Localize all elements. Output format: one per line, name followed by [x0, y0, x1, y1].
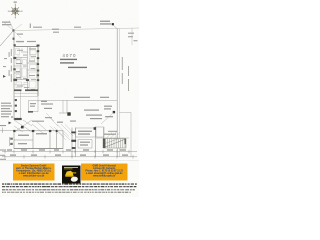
rotated dims along west wall — [3, 49, 12, 82]
ramp hatch X — [14, 120, 46, 134]
small dark tick near x=30 — [29, 24, 32, 29]
dimension chain 2 — [2, 155, 137, 158]
tiny room labels — [16, 48, 36, 90]
survey point C labels — [100, 21, 111, 25]
extra verticals and leaders mid area — [62, 100, 64, 113]
survey point D — [113, 111, 115, 113]
short right vertical top — [131, 28, 133, 45]
garage west approach — [0, 130, 14, 132]
interior walls — [14, 47, 38, 91]
numbers chain 1 — [7, 149, 126, 150]
boundary labels — [33, 27, 81, 33]
label above staircase — [104, 134, 116, 135]
svg-text:www.becker-sys.de: www.becker-sys.de — [23, 176, 45, 178]
staircase box — [103, 139, 126, 148]
leader lines to point A — [3, 22, 14, 31]
svg-text:4070: 4070 — [63, 53, 77, 58]
survey point C — [112, 23, 114, 25]
left orange box — [13, 164, 55, 181]
diagonal hatch center — [50, 124, 75, 140]
rotated street labels — [122, 57, 129, 91]
svg-text:www.tiefbau-gwb.de: www.tiefbau-gwb.de — [93, 175, 116, 178]
building top wall — [14, 46, 38, 48]
right orange box — [81, 164, 128, 181]
excavator — [65, 171, 73, 176]
staircase upper left edge — [103, 128, 105, 139]
disclaimer lines — [2, 183, 137, 184]
parcel area label top — [90, 49, 100, 50]
paper background — [0, 0, 139, 197]
mid horizontal boundary — [38, 99, 117, 101]
arrow marks — [3, 75, 6, 78]
furniture squiggles — [14, 48, 37, 88]
right double boundary — [116, 29, 118, 158]
building west wall — [13, 31, 15, 121]
south thick wall — [14, 89, 38, 91]
leader fan above staircase — [106, 132, 120, 139]
building east wall — [37, 47, 39, 97]
terrace below — [14, 91, 38, 118]
parcel number block — [60, 53, 87, 68]
step boundary — [66, 100, 68, 113]
survey point A — [13, 30, 15, 32]
dimension chain 1 — [2, 150, 137, 153]
secondary boundary point below A — [13, 38, 15, 40]
compass rose — [8, 1, 23, 18]
dim text above top wall — [16, 41, 36, 42]
center strip verticals — [72, 127, 96, 158]
logo black square — [62, 166, 81, 184]
legend stack left margin — [1, 103, 12, 118]
faint rule above title band — [0, 160, 139, 162]
west wall blobs lower — [14, 99, 21, 120]
survey labels top-left — [2, 22, 11, 26]
boundary diagonal lower-left — [0, 31, 14, 47]
dark wall nodes — [13, 44, 39, 81]
garage row — [14, 131, 63, 149]
left edge marks near chains — [0, 150, 6, 160]
boxes with labels — [76, 127, 105, 148]
north boundary line — [14, 28, 140, 31]
scattered small labels mid area — [32, 103, 53, 121]
annex labels — [30, 103, 36, 107]
